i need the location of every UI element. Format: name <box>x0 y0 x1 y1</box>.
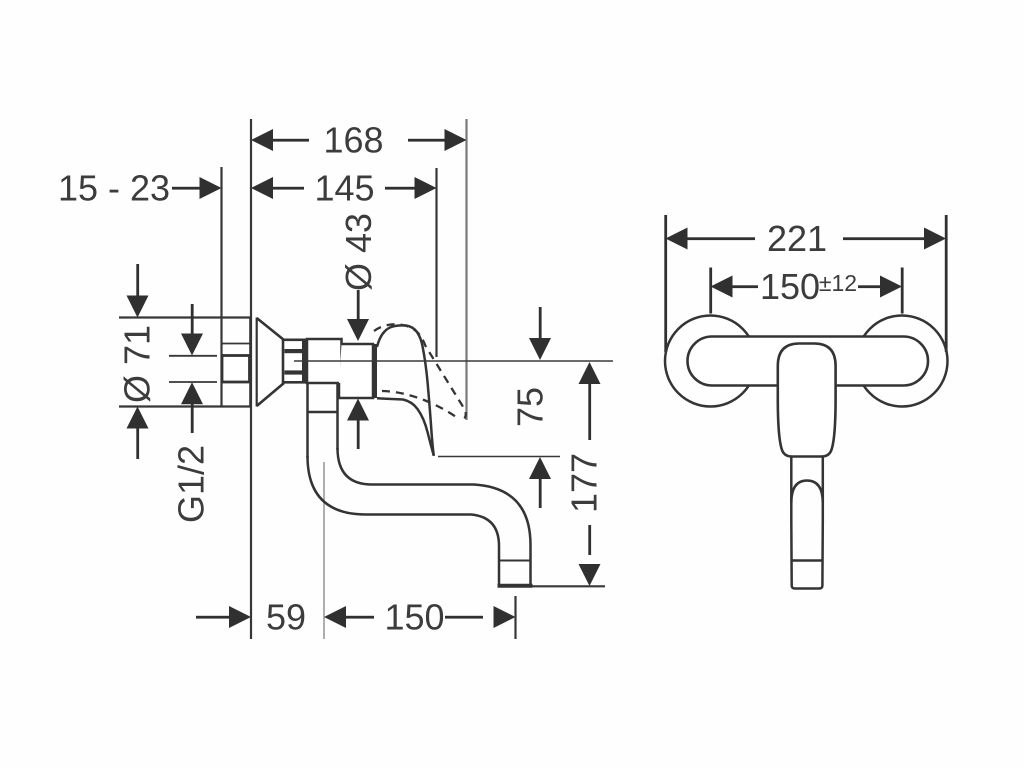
svg-text:150: 150 <box>760 266 820 307</box>
dimension 59 <box>196 597 306 638</box>
front view: dimension 221 <box>664 215 947 352</box>
dimension dia 71 <box>117 264 158 459</box>
handle lever open position dashed <box>374 324 466 419</box>
spout axis line <box>323 462 325 639</box>
centerline of faucet body <box>294 360 613 362</box>
aerator line <box>499 560 531 562</box>
threaded nipple <box>283 340 306 383</box>
cartridge housing <box>339 344 377 398</box>
extension line 168 right <box>465 119 467 420</box>
reference line handle tip (75/177) <box>438 456 560 458</box>
left escutcheon circle front view <box>665 316 756 407</box>
extension line G1/2 bottom <box>169 381 217 383</box>
svg-text:±12: ±12 <box>819 270 857 296</box>
spout neck <box>308 383 338 458</box>
svg-text:75: 75 <box>510 387 551 427</box>
dimension 177 <box>564 362 605 586</box>
svg-text:145: 145 <box>314 168 374 209</box>
in-wall pipe top line <box>222 343 252 345</box>
extension line dia71 bottom <box>119 405 250 407</box>
svg-text:221: 221 <box>767 218 827 259</box>
dimension G1/2 <box>171 304 212 523</box>
spout outlet bottom <box>498 584 533 588</box>
dimension 15 - 23 <box>58 168 222 209</box>
svg-text:Ø 43: Ø 43 <box>338 213 379 291</box>
escutcheon plate <box>250 318 256 407</box>
body bar front view <box>688 337 929 386</box>
G1/2 wall union square <box>222 356 250 383</box>
svg-text:150: 150 <box>384 597 444 638</box>
svg-text:G1/2: G1/2 <box>171 445 212 523</box>
svg-text:168: 168 <box>323 120 383 161</box>
reference line spout outlet bottom <box>500 585 605 587</box>
wall surface line (left, 15-23 ref) <box>220 167 222 406</box>
handle lever side view <box>377 325 434 455</box>
dimension 75 <box>510 307 551 508</box>
svg-text:Ø 71: Ø 71 <box>117 325 158 403</box>
wall finished surface line <box>250 119 252 639</box>
right escutcheon circle front view <box>857 316 948 407</box>
extension line 145 right <box>435 168 437 357</box>
body main cylinder <box>307 339 342 383</box>
extension line dia71 top <box>119 316 250 318</box>
escutcheon cone <box>257 318 284 406</box>
svg-text:15 - 23: 15 - 23 <box>58 168 170 209</box>
dimension 150 <box>324 597 516 638</box>
spout tube <box>308 448 531 586</box>
front view: dimension 150+-12 <box>709 266 903 314</box>
extension line G1/2 top <box>169 355 217 357</box>
extension line 150 right <box>514 596 516 639</box>
cartridge body front view <box>778 344 836 457</box>
handle lever front view <box>791 457 823 589</box>
dimension 145 <box>251 168 437 209</box>
dimension dia 43 <box>338 213 379 449</box>
svg-text:177: 177 <box>564 453 605 513</box>
svg-text:59: 59 <box>266 597 306 638</box>
dimension 168 <box>251 120 467 161</box>
